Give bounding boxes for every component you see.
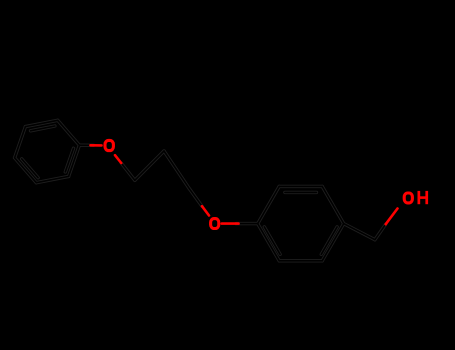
wire ring1 double bond inner A4-A5 bbox=[22, 159, 38, 178]
wire ring2 double bond inner B6-B1 bbox=[264, 227, 280, 254]
wire bond C4-OH black half bbox=[375, 224, 386, 240]
wire ring1 edge A1-A2 bbox=[58, 120, 80, 145]
wire bond ring1-O1 red half bbox=[91, 144, 102, 147]
wire bond O2-ring2 red half bbox=[222, 222, 239, 225]
wire bond C1-C2 bbox=[135, 151, 164, 180]
wire bond C4-OH red half bbox=[386, 209, 398, 225]
wire bond O2-ring2 black half bbox=[236, 222, 258, 225]
wire bond C3-O2 black half bbox=[189, 189, 202, 206]
atom O1 (ether oxygen, phenoxy) bbox=[105, 140, 113, 150]
wire ring2 edge B5-B6 bbox=[279, 259, 322, 262]
wire ring2 edge B6-B1 bbox=[258, 224, 280, 261]
wire bond O1-C1 red half bbox=[115, 155, 121, 163]
wire ring2 edge B1-B2 bbox=[258, 186, 280, 223]
wire bond ring2-C4 bbox=[344, 224, 375, 240]
wire ring1 edge A4-A5 bbox=[15, 158, 37, 183]
wire ring2 double bond inner B2-B3 bbox=[285, 191, 317, 194]
wire ring1 double bond inner A6-A1 bbox=[65, 148, 73, 172]
wire ring1 edge A6-A1 bbox=[69, 145, 80, 176]
wire bond ring1-O1 black half bbox=[79, 143, 93, 147]
benzene ring 2 (right) bbox=[258, 186, 344, 260]
atom OH (hydroxyl) : O glyph bbox=[404, 193, 412, 203]
wire ring2 edge B3-B4 bbox=[322, 186, 344, 223]
wire ring2 double bond inner B4-B5 bbox=[321, 227, 337, 254]
atom O2 (ether oxygen) bbox=[211, 219, 219, 229]
wire bond C3-O2 red half bbox=[202, 206, 209, 215]
wire bond C2-C3 bbox=[164, 151, 189, 189]
wire ring1 edge A2-A3 bbox=[25, 120, 57, 126]
wire ring2 edge B2-B3 bbox=[279, 185, 322, 188]
wire ring1 edge A5-A6 bbox=[36, 176, 68, 182]
benzene ring 1 (phenyl, left) bbox=[15, 120, 80, 182]
atom OH (hydroxyl) : H glyph bbox=[418, 191, 429, 204]
wire ring1 edge A3-A4 bbox=[15, 127, 26, 158]
wire ring1 double bond inner A2-A3 bbox=[31, 126, 55, 131]
wire ring2 edge B4-B5 bbox=[322, 224, 344, 261]
wire bond O1-C1 black half bbox=[121, 163, 135, 180]
